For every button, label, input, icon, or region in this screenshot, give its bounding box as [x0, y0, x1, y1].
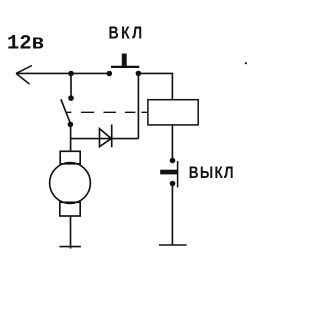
svg-text:ВЫКЛ: ВЫКЛ — [189, 164, 235, 183]
svg-text:12в: 12в — [7, 32, 44, 55]
svg-text:ВКЛ: ВКЛ — [109, 24, 145, 43]
